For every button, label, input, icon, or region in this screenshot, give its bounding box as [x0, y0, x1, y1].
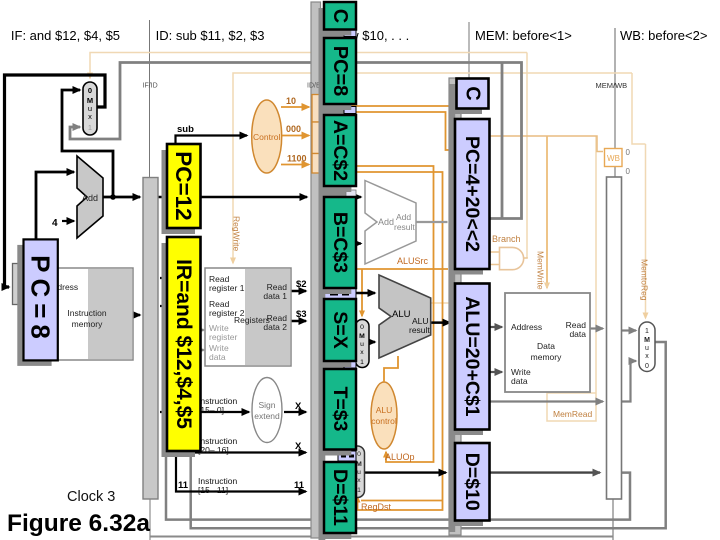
svg-text:Data: Data: [537, 341, 555, 351]
IF/ID pipeline register bar: [143, 178, 158, 500]
svg-text:data: data: [511, 376, 528, 386]
svg-text:memory: memory: [531, 352, 562, 362]
hidden lavender sliver below S=X: [344, 361, 356, 368]
green box S=X: [324, 299, 356, 361]
wire EX/MEM to data memory address: [489, 326, 502, 328]
wire RegDst loop: [330, 172, 443, 510]
svg-text:extend: extend: [254, 411, 280, 421]
MEM/WB WB control box: [605, 149, 623, 167]
svg-text:X: X: [295, 441, 302, 452]
stage divider line IF/ID: [149, 20, 151, 178]
WB mux: [639, 322, 655, 372]
register file box: [205, 268, 291, 366]
wire RegWrite corner at MEM/WB: [632, 73, 646, 144]
wire RegWrite long run: [233, 73, 632, 262]
PC register box: [13, 264, 23, 305]
svg-text:IF: and $12, $4, $5: IF: and $12, $4, $5: [11, 28, 120, 43]
svg-text:x: x: [88, 112, 92, 121]
faint orange control routing: [90, 53, 646, 422]
wire ALUSrc select drop: [361, 269, 363, 314]
lavender box ALU=20+C$1: [455, 284, 490, 430]
lavender box D=$10 shadow: [449, 449, 484, 527]
wire zero flag faint: [426, 302, 449, 304]
svg-text:ID: sub $11, $2, $3: ID: sub $11, $2, $3: [156, 28, 265, 43]
svg-text:0: 0: [360, 324, 364, 331]
wire write-register-number loop to register file: [166, 330, 630, 520]
overlay: yellow IR box shadow: [162, 243, 196, 457]
junction dot PC+4: [110, 194, 116, 200]
wire ALUOp loop: [330, 166, 434, 462]
RegDst mux: [350, 446, 365, 498]
lavender box ALU=20+C$1 shadow: [449, 289, 484, 435]
Control oval: [252, 100, 282, 173]
svg-text:register 1: register 1: [209, 283, 245, 293]
wire instruction to read register 2: [160, 305, 200, 307]
arrow PCSrc into PC mux select: [89, 74, 91, 78]
svg-text:WB: before<2>: WB: before<2>: [620, 28, 707, 43]
svg-text:ALU=20+C$1: ALU=20+C$1: [461, 296, 483, 416]
arrow RegDst into mux select: [357, 497, 359, 501]
wire MemtoReg vertical: [645, 144, 647, 316]
svg-text:PC=4+20<<2: PC=4+20<<2: [461, 136, 483, 252]
svg-text:0: 0: [645, 363, 649, 370]
wire register file read data 2 to ID/EX: [291, 320, 306, 323]
wire ALU control to ALU: [384, 356, 398, 382]
wire instruction to read register 1: [160, 277, 200, 279]
ALU control oval: [371, 382, 397, 449]
svg-text:result: result: [394, 222, 415, 232]
green box D=$11: [324, 462, 356, 533]
green box T=$3: [324, 369, 356, 450]
wire sign extend to ID/EX: [284, 411, 306, 413]
IF adder (Add): [77, 156, 103, 238]
svg-text:[15– 0]: [15– 0]: [198, 405, 224, 415]
wire M bundle nested bend: [330, 112, 449, 150]
wire MemWrite drop: [546, 136, 548, 288]
svg-text:Clock 3: Clock 3: [67, 489, 115, 505]
svg-text:ALU: ALU: [376, 405, 393, 415]
svg-text:Instruction: Instruction: [67, 308, 106, 318]
gray gap fillers between green boxes: [319, 29, 351, 39]
stage divider line below MEM/WB register: [612, 499, 614, 540]
overlay: yellow IR box: [167, 237, 201, 451]
svg-text:RegWrite: RegWrite: [232, 216, 242, 252]
wire WB bundle ID/EX to EX/MEM: [330, 106, 451, 256]
Control output 10: [281, 106, 309, 108]
lavender box D=$10: [455, 443, 490, 521]
svg-text:result: result: [409, 325, 430, 335]
wire bottom rail: [150, 536, 613, 538]
svg-text:A=C$2: A=C$2: [329, 120, 351, 181]
svg-text:IR=and $12,$4,$5: IR=and $12,$4,$5: [172, 259, 195, 429]
svg-text:C: C: [329, 9, 351, 23]
svg-text:RegDst: RegDst: [361, 502, 392, 512]
svg-text:sub: sub: [177, 124, 194, 135]
svg-text:MemtoReg: MemtoReg: [640, 259, 650, 301]
MEM/WB pipeline register bar: [607, 177, 622, 499]
green box D=$11 shadow: [319, 468, 351, 539]
svg-text:MemWrite: MemWrite: [536, 251, 546, 290]
svg-text:M: M: [644, 337, 650, 344]
wire data memory read data to MEM/WB: [590, 327, 603, 329]
wire RegDst mux output to EX/MEM: [365, 471, 447, 473]
wire PCSrc top run: [90, 53, 527, 79]
svg-text:[15– 11]: [15– 11]: [198, 485, 228, 495]
wire ALU result bypass EX/MEM to MEM/WB: [489, 400, 603, 402]
overlay: yellow PC=12 box: [167, 144, 201, 228]
lavender box C: [457, 79, 489, 109]
svg-text:B=C$3: B=C$3: [329, 212, 351, 273]
svg-text:x: x: [645, 353, 649, 360]
svg-text:$2: $2: [296, 279, 307, 290]
svg-text:data: data: [569, 329, 586, 339]
svg-text:D=$11: D=$11: [329, 469, 351, 526]
lavender box C shadow: [450, 84, 482, 114]
svg-text:x: x: [360, 349, 364, 356]
green box B=C$3 shadow: [319, 203, 351, 294]
wire PC to IF adder: [36, 172, 74, 242]
wire MEM/WB to WB mux input 0: [622, 361, 636, 402]
svg-text:ALUOp: ALUOp: [385, 452, 415, 462]
svg-text:PC=12: PC=12: [171, 151, 196, 220]
data memory box: [505, 293, 590, 392]
gray branch-target loop wire (EX/MEM to PC mux): [70, 63, 522, 219]
svg-text:Control: Control: [253, 132, 281, 142]
hidden lavender sliver below PC=8: [344, 107, 356, 114]
svg-text:Branch: Branch: [492, 234, 521, 244]
wire PC+4 feedback to mux input 0: [62, 90, 113, 197]
hidden lavender sliver below T=$3: [338, 451, 356, 461]
green box C: [324, 2, 356, 30]
arrow MemWrite into data memory: [546, 284, 548, 288]
svg-text:11: 11: [294, 480, 305, 491]
overlay: left lavender PC=8 box shadow: [17, 245, 51, 366]
svg-text:S=X: S=X: [329, 311, 351, 348]
green box T=$3 shadow: [319, 375, 351, 456]
wire instruction memory to IF/ID: [133, 314, 140, 317]
overlay: yellow PC=12 box shadow: [162, 150, 196, 234]
PC mux (top-left): [83, 82, 97, 135]
svg-text:T=$3: T=$3: [329, 387, 351, 432]
ALU: [379, 275, 431, 358]
wire EX/MEM to data memory write data: [489, 371, 502, 373]
green box PC=8: [324, 38, 356, 104]
svg-text:C: C: [462, 86, 484, 100]
constant 4 into adder: [62, 220, 74, 222]
svg-text:Add: Add: [378, 217, 394, 227]
stage divider line EX/MEM: [468, 22, 470, 79]
EX/MEM pipeline register bar: [449, 78, 461, 535]
svg-text:Address: Address: [511, 322, 542, 332]
ALUSrc mux: [356, 320, 370, 368]
ID/EX column merged shadow: [319, 8, 326, 540]
sign extend oval: [252, 378, 282, 443]
svg-text:memory: memory: [72, 319, 103, 329]
svg-text:u: u: [645, 345, 649, 352]
overlay: left lavender PC=8 box: [24, 239, 58, 360]
ID/EX control WB box: [312, 95, 322, 123]
wire PC+4 from IF/ID to ID/EX: [158, 196, 307, 199]
wire MemRead routing: [547, 136, 596, 421]
svg-text:register: register: [209, 332, 238, 342]
arrow ALUSrc into mux select: [361, 311, 363, 316]
svg-text:ALUSrc: ALUSrc: [397, 256, 429, 266]
svg-text:MEM/WB: MEM/WB: [596, 81, 628, 90]
svg-text:MEM: before<1>: MEM: before<1>: [475, 28, 572, 43]
svg-text:1: 1: [357, 487, 361, 494]
svg-text:WB: WB: [607, 154, 620, 163]
svg-text:ALU: ALU: [392, 309, 411, 320]
svg-text:D=$10: D=$10: [461, 453, 483, 511]
svg-text:1100: 1100: [287, 154, 307, 164]
wire instruction 15-11 to ID/EX: [176, 453, 306, 492]
wire Add output to IF/ID: [103, 196, 140, 199]
ID/EX control M box: [312, 122, 322, 154]
wire A value to ALU input 1: [356, 292, 375, 295]
svg-text:PC=8: PC=8: [26, 255, 56, 345]
stage divider line below IF/ID register: [149, 499, 151, 540]
green box A=C$2: [324, 115, 356, 186]
arrow ALUOp into ALU control: [385, 452, 387, 456]
svg-text:x: x: [357, 477, 361, 484]
svg-text:u: u: [360, 341, 364, 348]
wire instruction 15-0 to sign extend: [160, 411, 249, 413]
ID/EX control EX box: [312, 154, 322, 174]
hidden lavender sliver between C and PC=8: [344, 30, 356, 37]
hidden lavender sliver below B=C$3: [324, 289, 356, 299]
wire PCSrc vertical to AND gate: [526, 53, 528, 259]
wire branch adder output to EX/MEM: [416, 221, 448, 223]
green box A=C$2 shadow: [319, 121, 351, 192]
lavender box PC=4+20 shadow: [449, 125, 484, 275]
wire sub field to Control: [176, 136, 248, 146]
svg-text:0: 0: [88, 86, 92, 95]
wire ID/EX to branch adder bottom input: [356, 242, 361, 244]
wire MEM/WB to WB mux input 1: [622, 329, 636, 331]
svg-text:0: 0: [626, 167, 631, 176]
EX/MEM column merged shadow: [449, 84, 455, 532]
instruction memory box: [40, 268, 133, 360]
svg-text:data 2: data 2: [263, 322, 287, 332]
svg-text:Add: Add: [396, 212, 411, 222]
wire register number through MEM stage: [489, 471, 600, 473]
AND gate branch input stubs: [489, 252, 500, 265]
wire PC mux output to PC: [5, 75, 106, 287]
Control output 000: [282, 135, 309, 137]
svg-text:Add: Add: [82, 193, 98, 203]
gray vertical segment of branch loop: [501, 63, 504, 219]
lavender box PC=4+20<<2: [455, 119, 490, 269]
svg-text:4: 4: [52, 218, 58, 229]
branch adder (Add result): [365, 181, 416, 265]
stage divider line MEM/WB: [614, 28, 616, 177]
wire ALUSrc run: [330, 268, 448, 270]
green box S=X shadow: [319, 305, 351, 367]
svg-text:Figure 6.32a: Figure 6.32a: [7, 510, 150, 537]
svg-text:M: M: [359, 333, 365, 340]
svg-text:10: 10: [286, 96, 296, 106]
arrow MemtoReg into WB mux select: [645, 313, 647, 318]
svg-text:X: X: [295, 401, 302, 412]
green box C shadow: [319, 8, 351, 36]
svg-text:u: u: [357, 469, 361, 476]
svg-text:1: 1: [360, 359, 364, 366]
svg-text:0: 0: [626, 148, 631, 157]
svg-text:control: control: [371, 416, 397, 426]
green box PC=8 shadow: [319, 44, 351, 110]
svg-text:$3: $3: [296, 309, 307, 320]
svg-text:1: 1: [88, 123, 92, 132]
wire WB mux output write-data loop to register file: [191, 342, 666, 528]
svg-text:data: data: [209, 352, 226, 362]
svg-text:[20– 16]: [20– 16]: [198, 445, 229, 455]
svg-text:data 1: data 1: [263, 291, 287, 301]
arrow RegWrite into register file: [232, 258, 234, 263]
svg-text:000: 000: [286, 124, 301, 134]
wire ALUSrc mux output to ALU input 2: [369, 341, 375, 344]
svg-text:PC=8: PC=8: [329, 46, 351, 97]
wire register file read data 1 to ID/EX: [291, 290, 306, 293]
ID/EX pipeline register bar: [311, 2, 321, 538]
AND gate (branch): [500, 247, 524, 269]
svg-text:11: 11: [178, 480, 189, 491]
wire ALU result to EX/MEM: [431, 321, 450, 324]
wire WB bundle EX/MEM to MEM/WB box: [461, 136, 603, 152]
wire ID/EX to branch adder top input: [356, 196, 361, 198]
svg-text:MemRead: MemRead: [553, 409, 592, 419]
svg-text:1: 1: [645, 328, 649, 335]
svg-text:0: 0: [357, 451, 361, 458]
wire instruction 20-16 to ID/EX: [162, 451, 306, 453]
Control output 1100: [281, 164, 309, 166]
svg-text:Sign: Sign: [258, 400, 275, 410]
svg-text:IF/ID: IF/ID: [143, 83, 158, 90]
green box B=C$3: [324, 197, 356, 288]
bright orange control wires: [330, 106, 451, 510]
wire AND gate output to PCSrc: [524, 257, 528, 259]
